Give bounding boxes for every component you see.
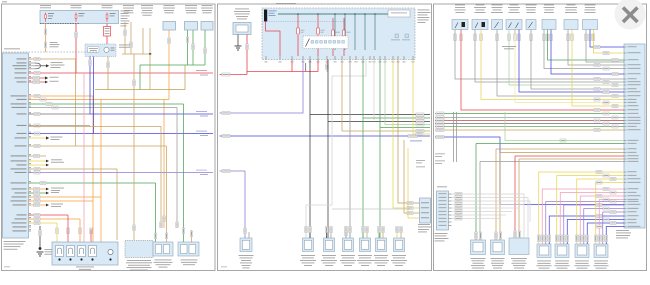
P3 component 1 lead at x=455 — [454, 30, 456, 35]
P2 yellow wire to aux connector — [393, 60, 420, 209]
P3 pale green mid wire — [505, 112, 624, 141]
P3 top component 6 text — [544, 4, 554, 7]
P3 footer text — [619, 237, 621, 239]
P3 top component 7 box — [564, 20, 578, 30]
P1 wire tan sensor feed horizontal — [29, 58, 76, 60]
P3 component 1 lead at x=461 — [460, 30, 462, 35]
P1 tan drop from junction — [149, 54, 151, 90]
P3 wire from x=544 to junction block at y=68.5 — [544, 34, 624, 69]
P1 wire orange 5v supply 1 — [29, 95, 94, 97]
P1 ambient sensor box — [201, 22, 213, 31]
P2 fuse M1 — [297, 14, 299, 28]
P3 gray ghost pair 2 — [456, 112, 458, 162]
close button X icon — [623, 8, 638, 23]
P1 relay right-side text — [119, 44, 132, 47]
P1 wire green coolant 2 — [192, 30, 194, 65]
P2 teal drop — [364, 14, 366, 50]
P2 TIPM relay dashed box — [303, 36, 348, 49]
P1 PCM pin name texts — [17, 58, 27, 59]
P3 left edge bundle wire 1 — [435, 117, 624, 119]
P1 orange vertical injector 1 — [100, 100, 102, 198]
P3 O2 connector 3 wire 1 — [577, 179, 624, 244]
P3 component 7 lead at x=568 — [567, 30, 569, 35]
P2 pink wire stub — [326, 60, 328, 73]
P3 left block pin wire 8 — [449, 218, 452, 220]
P3 top component 3 text — [492, 4, 503, 7]
P3 left block pin wire 3 — [449, 200, 452, 202]
P3 component 4 lead at x=519 — [518, 30, 520, 35]
P3 left junction block box — [437, 191, 449, 230]
P2 red junction horizontal — [247, 71, 292, 73]
P2 red jumper to second pin — [292, 60, 318, 72]
P1 top tan wire 2 — [130, 22, 132, 54]
P1 injector 1 symbol — [56, 246, 64, 257]
P2 white wire 2 — [373, 60, 375, 121]
P1 wire violet bus horizontal — [29, 172, 214, 174]
P2 TIPM inner dashed boundary — [262, 21, 345, 23]
P1 wire orange stub with arrow — [29, 188, 47, 190]
P3 component 5 lead at x=531 — [530, 30, 532, 35]
P1 tan junction — [149, 53, 151, 55]
P2 footer text — [221, 266, 227, 269]
P2 tan wire to aux connector — [398, 60, 420, 204]
P3 wire from x=481 to junction block at y=99.5 — [481, 34, 624, 100]
P2 TIPM battery bus bar — [264, 10, 267, 22]
P1 ambient sensor text — [202, 4, 213, 7]
P2 red feed from left edge — [220, 74, 248, 76]
P2 fuse M4 — [343, 18, 345, 30]
P1 injector label yellow — [56, 228, 59, 234]
P3 wire from x=475 to junction block at y=82 — [475, 34, 624, 82]
P3 left block pin wire 4 — [449, 204, 452, 206]
P2 right edge note labels — [416, 159, 425, 162]
P2 ground wire from battery — [237, 35, 239, 47]
P3 wire from x=590 to junction block at y=47 — [590, 34, 624, 47]
page header text — [2, 1, 7, 2]
P3 O2 connector 4 wire 1 — [596, 183, 624, 245]
P1 PCM bottom text block — [4, 240, 26, 243]
P1 fuse F1 text above — [40, 4, 51, 7]
P1 PCM pin ticks — [29, 58, 32, 60]
P2 black wire 2 down — [327, 122, 329, 239]
P3 bottom connector K2 — [491, 240, 505, 255]
P3 top component 4 box — [506, 20, 522, 30]
P1 twisted pair shield wires — [29, 62, 36, 64]
P3 left edge note labels — [435, 153, 445, 156]
P3 top component 5 text — [526, 4, 537, 7]
P3 left block pin wire 2 — [449, 197, 452, 199]
P2 TIPM internal connector box — [388, 10, 410, 17]
P1 coolant sensor text — [185, 4, 197, 7]
P3 wire end labels near junction block — [594, 46, 618, 132]
P1 injector rail sensor symbol — [108, 249, 113, 254]
P2 fuse M2 — [317, 14, 319, 28]
P3 top component 3 box — [492, 20, 503, 30]
P3 left edge bundle wire 4 — [435, 126, 624, 128]
P1 coolant sensor box — [185, 22, 198, 31]
P1 footer text — [4, 266, 10, 269]
P3 white fan wire 5 — [452, 207, 519, 209]
P2 bottom connector at x=329 — [324, 238, 335, 252]
P2 violet wire ignition run — [220, 60, 304, 114]
P1 wire green sensor return — [29, 103, 184, 105]
P3 component 6 lead at x=547.5 — [547, 30, 549, 35]
P2 teal drop — [374, 14, 376, 50]
P2 black wire 1 — [309, 60, 311, 239]
P1 orange wire pin label text — [50, 41, 58, 44]
panel 3 frame — [434, 4, 647, 271]
P3 left block pin wire 5 — [449, 207, 452, 209]
P3 top component 7 text — [567, 4, 576, 7]
P1 top tan wire 3 — [142, 28, 144, 54]
P3 wire gray to K1 — [480, 161, 624, 163]
P1 wire red battery voltage bus — [29, 72, 214, 74]
P1 connector A box — [153, 242, 173, 256]
P3 wire from x=586 to junction block at y=62 — [586, 34, 624, 62]
P1 pink vertical to bottom — [83, 73, 85, 242]
P3 component 3 lead at x=497 — [496, 30, 498, 35]
P1 wire gray elbow down — [176, 108, 178, 229]
P3 wire from x=547.5 to junction block at y=60 — [548, 34, 625, 60]
P3 left edge green wire — [435, 113, 624, 115]
P2 tan wire 2 to aux connector — [404, 140, 420, 213]
P2 bottom connector at x=308 — [303, 238, 314, 252]
P2 green wire 2 right — [380, 127, 430, 129]
P1 tan jumper horizontal — [95, 89, 185, 91]
P3 wire from x=593.5 to junction block at y=53 — [594, 34, 625, 53]
P2 bottom connector at x=381 — [376, 238, 387, 252]
P1 red bus right edge label — [196, 69, 207, 72]
P3 left block pin wire 7 — [449, 214, 452, 216]
P1 wire gray stub — [29, 125, 91, 127]
P1 ground wire vertical — [39, 226, 41, 249]
P3 white fan wire 1 — [452, 194, 525, 238]
P1 tan long vertical — [133, 54, 135, 240]
P3 component 7 lead at x=572 — [571, 30, 573, 35]
P3 left edge bundle wire 3 — [435, 123, 624, 125]
P1 wire tan 2 stub — [29, 155, 47, 157]
P3 white fan wire 2 — [452, 198, 529, 239]
P3 O2 connector 4 wire 4 — [606, 227, 624, 245]
P1 wire orange injector feed 2 — [29, 200, 94, 202]
P1 fuse F3 text above — [102, 4, 113, 7]
P2 TIPM big box — [262, 8, 415, 60]
P3 top component 8 text — [585, 4, 596, 7]
P2 relay pin square — [320, 41, 323, 44]
P3 white fan wire 3 — [452, 201, 531, 222]
P1 PCM connector box (left) — [3, 53, 29, 238]
P3 white fan wire 7 — [452, 214, 507, 216]
P2 C1 second pin gray — [248, 232, 250, 238]
P1 wire tan 1 horizontal — [29, 145, 167, 147]
P2 aux connector box — [420, 198, 431, 223]
P3 top component 6 box — [542, 20, 556, 30]
P2 black wire 1 branch to right edge — [310, 114, 430, 116]
P3 wire from x=515 to junction block at y=102.5 — [515, 34, 624, 103]
P2 TIPM right-side text — [418, 9, 430, 12]
P3 top component 2 box — [472, 20, 488, 30]
P1 wire gray signal to fan — [29, 113, 91, 115]
P2 relay pin square — [311, 41, 314, 44]
P3 top component 1 text — [455, 4, 465, 7]
P3 left edge blue wire L-path — [435, 137, 624, 205]
P1 fuse block dashed bottom edge — [40, 23, 80, 25]
P2 relay pin square — [324, 41, 327, 44]
P2 yellow wire right branch — [413, 60, 430, 135]
P1 wire green to o2 heater — [29, 182, 156, 184]
P2 lt green wire — [385, 60, 430, 125]
P3 wire from x=551 to junction block at y=74 — [551, 34, 624, 74]
P2 relay pin square — [315, 41, 318, 44]
P1 injector 3 symbol — [78, 246, 86, 257]
P1 wire green vertical to connector B — [183, 104, 185, 242]
P3 O2 connector 1 wire 3 — [546, 202, 624, 245]
P1 wire orange stub 3 — [29, 204, 47, 206]
P3 O2 sensor connector 3 — [575, 244, 589, 258]
P2 TIPM top label — [276, 2, 296, 5]
P3 O2 connector 1 wire 4 — [549, 216, 624, 244]
P1 ground label text — [45, 248, 55, 251]
P3 component 4 lead at x=509 — [508, 30, 510, 35]
P2 TIPM internal bus teal — [278, 13, 388, 15]
P1 wire yellow injector 1 drive — [29, 222, 58, 224]
P3 top component 4 text — [510, 4, 519, 7]
P1 fuse F2 text above — [71, 4, 82, 7]
P2 ground symbol — [235, 45, 242, 47]
P1 tan bus horizontal — [122, 53, 152, 55]
P3 left junction block bottom text — [435, 232, 448, 235]
P2 violet wire to fuel pump — [220, 171, 246, 238]
P3 wire from x=497 to junction block at y=96 — [497, 34, 624, 96]
P1 relay tan wire down — [107, 57, 109, 90]
P1 bottom dashed connector box — [125, 241, 153, 258]
P1 ground symbol — [37, 251, 44, 253]
P3 O2 connector 1 wire 1 — [539, 172, 624, 244]
P1 tan jumper vertical to switch — [184, 65, 186, 90]
P1 wire tan heater vertical — [116, 169, 118, 240]
P3 top component 5 box — [526, 20, 536, 30]
P3 wire from x=572 to junction block at y=106 — [572, 34, 624, 106]
P2 battery red positive wire — [246, 35, 248, 75]
P3 wire from x=461 to junction block at y=110 — [461, 34, 624, 110]
P2 tan wire right branch — [342, 60, 430, 132]
P2 top right note text — [418, 223, 430, 226]
P2 battery box — [233, 23, 251, 35]
P1 wire yellow stub with arrow — [29, 137, 47, 139]
P3 wire from x=568 to junction block at y=65 — [568, 34, 624, 65]
P2 fuse M3 — [332, 18, 334, 30]
P3 O2 connector 2 wire 2 — [560, 193, 624, 245]
P2 gray wire thick — [349, 60, 351, 239]
P1 injector rail box — [52, 242, 118, 265]
P3 left block pin wire 10 — [449, 225, 452, 227]
P1 radiator fan relay dashed box — [85, 44, 116, 57]
P1 wire green ambient — [204, 30, 206, 65]
P2 black wire 2 — [328, 60, 430, 122]
P1 wire orange injector vertical — [79, 219, 81, 246]
P3 wire from x=531 to junction block at y=89 — [531, 34, 624, 89]
P2 green branch right — [363, 117, 430, 119]
P3 left edge tan wire — [435, 129, 624, 131]
P2 relay pin square — [337, 41, 340, 44]
P2 TIPM diode symbols — [395, 34, 399, 38]
P3 left block pin wire 9 — [449, 221, 452, 223]
P1 top tan wire 1 — [124, 22, 126, 54]
P1 fuse F2 symbol — [75, 13, 77, 15]
P1 top tan wire 4 — [149, 28, 151, 54]
P3 top component 1 box — [452, 20, 468, 30]
P1 cooling fan switch box — [163, 22, 176, 31]
P3 white fan wire 8 — [452, 218, 501, 220]
P2 bottom connector at x=348 — [343, 238, 354, 252]
P2 relay pin square — [342, 41, 345, 44]
P1 wire yellow ac pressure 1 — [29, 160, 47, 162]
P3 wire tan to K2 b — [500, 152, 624, 154]
P1 wire green elbow to connector A — [155, 183, 157, 242]
P2 teal drop — [344, 14, 346, 50]
P1 wire red injector vertical — [67, 215, 69, 246]
P1 wire red run/start vertical — [75, 24, 77, 73]
P2 green wire long — [362, 60, 364, 239]
P1 wire yellow injector vertical — [56, 223, 58, 246]
P1 wire red battery voltage stub 1 — [29, 77, 46, 79]
P3 O2 connector 2 wire 3 — [564, 205, 624, 244]
P1 green collector bus — [140, 64, 205, 66]
P3 wire from x=455 to junction block at y=79 — [455, 34, 624, 79]
P3 right junction block pin texts — [624, 46, 641, 226]
P3 bottom connector K1 — [471, 240, 486, 255]
P3 wire from x=509 to junction block at y=85 — [509, 34, 624, 85]
P3 green wire under box 4 text — [502, 45, 516, 48]
P3 top component 8 box — [583, 20, 598, 30]
P3 wire tan to K2 a — [496, 148, 624, 150]
P1 orange vertical 2 to injector rail — [100, 197, 102, 242]
P3 wire tan to K3 — [519, 158, 624, 160]
P1 top connector text col 2 — [141, 4, 153, 7]
P3 component 2 lead at x=481 — [480, 30, 482, 35]
P1 wire tan to heater — [29, 168, 118, 170]
P3 component 8 lead at x=593.5 — [593, 30, 595, 35]
P1 wire orange injector feed 1 — [29, 196, 102, 198]
P3 O2 connector 4 wire 3 — [603, 212, 624, 244]
P1 relay motor symbol — [104, 47, 109, 52]
P3 O2 connector 1 wire 2 — [542, 189, 624, 244]
P1 PCM box top label — [4, 48, 20, 51]
P1 ground junction dot — [39, 247, 42, 250]
P2 teal drop — [334, 14, 336, 50]
P1 wire yellow ac pressure 2 — [29, 164, 47, 166]
panel 2 frame — [218, 4, 432, 271]
P1 injector 4 symbol — [89, 246, 97, 257]
P1 wire orange fan switch — [168, 30, 170, 100]
P1 wire orange injector 3 drive — [29, 218, 81, 220]
P1 cooling fan switch text — [164, 4, 175, 7]
P3 O2 connector 2 wire 4 — [567, 220, 624, 245]
P3 component 8 lead at x=590 — [589, 30, 591, 35]
P2 blue bus sub label — [410, 140, 422, 143]
P1 wire tan to connector B2 — [29, 127, 162, 229]
P3 component 4 lead at x=515 — [514, 30, 516, 35]
P1 injector rail label — [76, 266, 94, 269]
P1 relay output blue wire 2 — [93, 57, 95, 134]
P3 O2 sensor connector 2 — [555, 244, 569, 258]
P3 wire from x=519 to junction block at y=92 — [519, 34, 624, 92]
P1 wire red injector 2 drive — [29, 214, 69, 216]
P1 wire orange fused B+ vertical — [45, 24, 47, 53]
P1 injector label orange — [79, 228, 82, 234]
P3 O2 sensor connector 1 — [537, 244, 551, 258]
P3 component 6 lead at x=544 — [543, 30, 545, 35]
P3 O2 connector 4 wire 2 — [599, 200, 624, 245]
P2 green wire 2 down — [379, 128, 381, 239]
P3 right junction block box — [624, 44, 645, 228]
P2 green wire 2 — [379, 60, 381, 128]
P1 wire orange 5v supply 2 — [29, 99, 170, 101]
P1 wire green stub with arrow — [29, 192, 47, 194]
P1 injector label red4 — [90, 228, 93, 234]
P1 twisted pair label text — [51, 61, 63, 64]
P3 wire green to K1 — [476, 143, 624, 145]
P2 yellow wire 2 to aux connector — [408, 148, 420, 218]
P1 wire red injector 4 vertical — [90, 230, 92, 246]
P2 white wire path — [306, 60, 366, 239]
P3 component 2 lead at x=475 — [474, 30, 476, 35]
P1 connector A text — [155, 259, 172, 262]
P3 O2 connector 3 wire 4 — [587, 223, 624, 244]
P1 red wire label box — [104, 27, 111, 37]
P1 wire red battery voltage stub 2 — [29, 81, 46, 83]
P1 orange vertical to injector rail — [92, 96, 94, 242]
P2 TIPM bottom pins — [265, 56, 267, 60]
P1 injector 2 symbol — [67, 246, 75, 257]
P1 green bus drop — [139, 65, 141, 90]
P2 battery text block — [235, 8, 249, 11]
P1 bottom dashed box text — [127, 259, 151, 262]
P3 left block pin wire 1 — [449, 193, 452, 195]
P1 PCM dashed top boundary — [3, 51, 98, 53]
P1 wire red relay feed vertical — [106, 24, 108, 45]
P2 TIPM bus blue pin text — [269, 10, 277, 13]
P3 O2 sensor connector 4 — [594, 244, 608, 258]
P2 teal drop at fuse 1 — [297, 13, 299, 15]
P3 wire red to K3 — [515, 155, 624, 157]
P2 teal drop — [354, 14, 356, 50]
P2 bottom connector at x=399 — [394, 238, 405, 252]
P3 top component 2 text — [476, 4, 485, 7]
P3 left junction block label — [437, 186, 447, 189]
P3 right block bottom text — [616, 229, 629, 232]
P3 gray ghost pair 1 — [453, 112, 455, 162]
P2 bottom connector C1 (fuel pump) — [240, 238, 252, 252]
P3 component 8 lead at x=586 — [585, 30, 587, 35]
P1 top connector text col 1 — [123, 4, 134, 7]
panel 1 frame — [2, 4, 216, 271]
P2 relay pin square — [329, 41, 332, 44]
P2 teal drop at fuse 2 — [317, 13, 319, 15]
P2 faint gray jumper — [332, 208, 410, 210]
P3 O2 connector 2 wire 1 — [557, 176, 624, 245]
P2 bottom connector at x=365 — [360, 238, 371, 252]
P3 component 6 lead at x=551 — [550, 30, 552, 35]
P2 violet vertical label — [305, 63, 306, 72]
P2 gray stub for C4 — [345, 226, 347, 238]
close button circle — [615, 0, 646, 30]
P1 fuse F1 symbol — [45, 13, 47, 15]
P1 relay output blue wire 1 — [90, 57, 213, 115]
P3 white fan wire 4 — [452, 204, 525, 206]
P1 injector label red2 — [67, 228, 70, 234]
P2 blue bus full width — [220, 135, 431, 137]
